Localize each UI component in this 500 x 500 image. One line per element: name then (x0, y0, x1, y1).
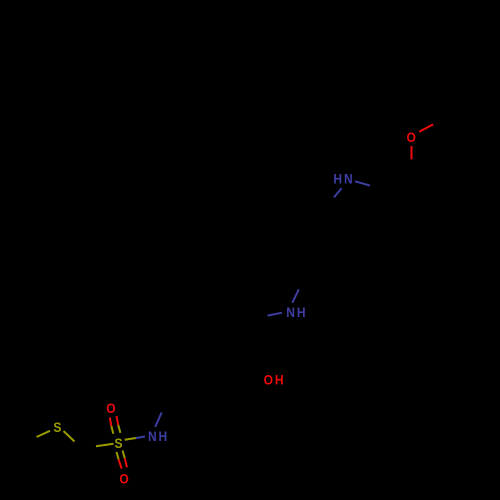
svg-text:S: S (114, 435, 122, 451)
amine N-CH2 upper half-bond (292, 289, 299, 303)
amine N-CH2 left half-bond (268, 313, 283, 316)
svg-text:NH: NH (286, 304, 307, 320)
S=O top double bond line2 sulfur half (118, 425, 120, 433)
methoxy O-CH3 half-bond (419, 124, 433, 131)
aryl-O half-bond (411, 146, 413, 159)
svg-text:O: O (407, 129, 416, 145)
svg-text:S: S (53, 419, 61, 435)
S=O bottom double bond line1 red half (119, 459, 122, 468)
indole N-C2 half-bond (355, 181, 370, 185)
svg-text:HN: HN (333, 171, 354, 187)
S=O bottom double bond line1 sulfur half (117, 452, 119, 459)
S-N bond sulfur half (125, 438, 136, 440)
indole N-C7a half-bond (334, 188, 342, 197)
svg-text:O: O (119, 471, 128, 487)
thiophene S-C2 half-bond (64, 431, 75, 442)
S=O bottom double bond line2 sulfur half (123, 451, 125, 459)
S-N bond nitrogen half (136, 437, 145, 439)
svg-text:NH: NH (148, 428, 169, 444)
S=O bottom double bond line2 red half (125, 458, 127, 467)
S=O top double bond line1 red half (110, 417, 112, 426)
S=O top double bond line2 red half (117, 416, 119, 425)
svg-text:OH: OH (264, 372, 286, 388)
C2-S(sulfonyl) half-bond (96, 444, 114, 447)
svg-text:O: O (106, 400, 115, 416)
thiophene S-C5 half-bond (37, 431, 51, 437)
S=O top double bond line1 sulfur half (111, 426, 113, 433)
sulfonamide N-CH2 half-bond (155, 413, 161, 428)
